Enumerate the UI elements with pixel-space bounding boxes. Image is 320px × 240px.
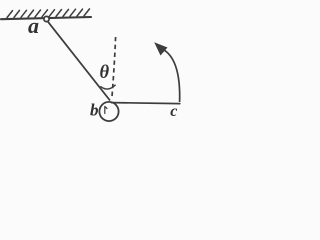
svg-text:a: a (28, 13, 39, 38)
horizontal line from ball to c (112, 103, 180, 104)
curved arrow head (154, 42, 167, 55)
curved arrow arc (162, 49, 180, 103)
angle arc (100, 85, 115, 89)
ball b (99, 102, 118, 121)
svg-text:b: b (90, 101, 99, 120)
ceiling hatching (7, 9, 90, 18)
string from a to ball (48, 22, 110, 101)
mark inside ball (105, 107, 107, 114)
svg-text:c: c (170, 103, 177, 120)
pivot ring at a (44, 16, 49, 21)
vertical dashed reference line (112, 37, 116, 99)
svg-text:θ: θ (100, 63, 110, 83)
ceiling line (1, 17, 91, 19)
